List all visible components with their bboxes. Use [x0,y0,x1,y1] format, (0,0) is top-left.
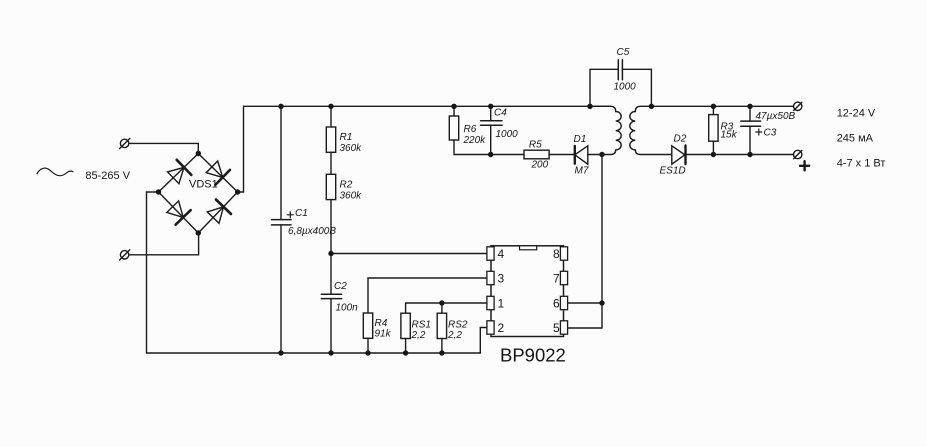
plus sign output [800,161,809,170]
svg-text:R1: R1 [340,132,353,143]
junction RS1 bottom [403,350,408,355]
svg-text:5: 5 [553,321,560,335]
wire AC top to bridge [129,143,198,153]
diode D2 [672,146,794,165]
junction R2 bottom / pin4 net [328,251,333,256]
IC pin stub 5 [560,321,567,334]
wire secondary top rail [651,105,793,107]
svg-text:R4: R4 [375,318,388,329]
svg-text:2,2: 2,2 [447,330,462,341]
capacitor C5 loop [590,60,651,107]
svg-text:1000: 1000 [496,129,519,140]
terminal output bottom [794,150,802,158]
svg-text:3: 3 [498,272,505,286]
capacitor C1 [272,106,294,353]
junction C4 bottom [488,152,493,157]
junction R1 top [328,104,333,109]
wire bottom rail [147,328,488,354]
svg-text:91k: 91k [375,329,392,340]
junction bridge top vertex [196,151,201,156]
resistor R5 [524,150,575,159]
IC U1 BP9022 body [491,246,564,337]
svg-text:7: 7 [553,272,560,286]
wire bridge right vertex to top rail [238,106,244,192]
junction C2 bottom [328,350,333,355]
wire AC bottom to bridge [129,233,199,255]
IC pin stub 1 [487,296,494,309]
wire top rail [244,105,611,107]
svg-text:360k: 360k [340,190,363,201]
bridge diode bottom-left (L to B) [167,201,191,225]
wire pin4 [331,253,488,255]
svg-text:200: 200 [531,160,549,171]
terminal output top [794,102,802,110]
terminal AC bottom [120,250,130,260]
resistor RS1 [401,303,410,353]
wire pin3 to R4 [368,278,488,313]
junction RS2 bottom [439,350,444,355]
resistor R3 [709,106,718,154]
svg-text:R6: R6 [464,124,477,135]
svg-text:2: 2 [498,321,505,335]
junction RS2 top / pin1 net [439,300,444,305]
svg-text:C3: C3 [764,128,777,139]
svg-text:6,8µх400В: 6,8µх400В [288,226,336,237]
svg-text:1: 1 [498,297,505,311]
svg-text:360k: 360k [340,143,363,154]
junction C5 left / primary top [587,104,592,109]
ac source symbol [37,168,73,176]
svg-text:C5: C5 [617,47,630,58]
svg-text:100n: 100n [336,303,359,314]
bridge rectifier VDS1 edges [159,154,238,234]
resistor R1 [326,106,335,174]
IC pin stub 3 [487,271,494,284]
transformer secondary winding [630,106,672,154]
wire pin6 [567,302,603,304]
IC pin stub 6 [560,296,567,309]
junction R3 bottom [711,152,716,157]
IC pin stub 8 [560,247,567,260]
diode D1 [575,146,602,164]
svg-text:RS2: RS2 [448,320,468,331]
svg-text:220k: 220k [463,135,487,146]
svg-text:245 мА: 245 мА [837,132,874,144]
svg-text:47µx50В: 47µx50В [756,111,796,122]
bridge diode bottom-right (B to R) [207,200,231,224]
svg-text:D2: D2 [674,134,687,145]
svg-text:R5: R5 [529,139,542,150]
bridge diode top-left (L to T) [168,160,192,184]
wire bridge left vertex to bottom rail [147,192,159,353]
junction pin6 net [599,300,604,305]
IC pin stub 2 [487,321,494,334]
capacitor C3 [741,106,762,154]
svg-text:C2: C2 [334,281,347,292]
svg-text:85-265 V: 85-265 V [85,170,130,182]
svg-text:2,2: 2,2 [411,330,426,341]
junction bridge right vertex [235,189,240,194]
junction C4 top [488,104,493,109]
resistor R2 [326,174,335,253]
resistor R4 [363,313,372,353]
junction C5 right / secondary top [649,104,654,109]
resistor RS2 [437,303,446,353]
wire D1 junction down to pin6 pin5 [567,155,603,329]
svg-text:6: 6 [553,297,560,311]
junction R6 top [451,104,456,109]
svg-text:C4: C4 [494,107,507,118]
svg-text:C1: C1 [295,208,308,219]
svg-text:15k: 15k [721,130,738,141]
svg-text:BP9022: BP9022 [500,345,566,366]
junction R4 bottom [365,350,370,355]
svg-text:1000: 1000 [614,82,637,93]
capacitor C4 [481,106,503,154]
transformer primary winding [590,106,621,154]
svg-text:VDS1: VDS1 [189,178,218,190]
junction R3 top [711,104,716,109]
capacitor C2 [321,254,341,354]
junction C3 bottom [747,152,752,157]
svg-text:M7: M7 [575,165,589,176]
junction bridge left vertex [156,189,161,194]
svg-text:4: 4 [498,247,505,261]
junction bridge bottom vertex [196,230,201,235]
terminal AC top [120,138,130,148]
svg-text:D1: D1 [574,134,587,145]
junction C1 top [278,104,283,109]
svg-text:ES1D: ES1D [660,166,686,177]
svg-text:8: 8 [553,247,560,261]
IC pin stub 7 [560,271,567,284]
IC pin stub 4 [487,247,494,260]
resistor R6 [449,106,524,154]
bridge diode top-right (T to R) [206,161,230,185]
svg-text:4-7 х 1 Вт: 4-7 х 1 Вт [837,158,886,170]
svg-text:R2: R2 [340,180,353,191]
junction D1 cathode node [599,152,604,157]
svg-text:12-24 V: 12-24 V [837,108,876,120]
svg-text:RS1: RS1 [412,320,431,331]
wire pin1 to RS1 RS2 [406,302,488,304]
junction C1 bottom [278,350,283,355]
junction C3 top [747,104,752,109]
